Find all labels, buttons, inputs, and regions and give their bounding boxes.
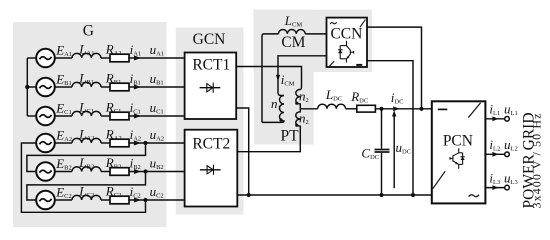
- wire inductor to resistor A2: [101, 142, 110, 144]
- inductor L_CM: [278, 30, 305, 34]
- wire L_DC to R_DC: [346, 108, 357, 110]
- PT secondary winding n2 top: [296, 89, 301, 108]
- inductor L_DC: [318, 104, 346, 109]
- wire resistor to rectifier C1: [129, 115, 185, 117]
- resistor RC1: [110, 112, 129, 120]
- wire delta link uB2 to C2: [27, 172, 146, 201]
- AC source EB2: [36, 162, 55, 181]
- wire inductor to resistor C2: [101, 199, 110, 201]
- wire RCT1 minus output: [236, 108, 249, 195]
- current arrow i_L1: [492, 116, 498, 121]
- wire inductor to resistor B1: [101, 86, 110, 88]
- terminal u_L1: [505, 117, 510, 122]
- panel GCN: [176, 28, 244, 215]
- capacitor C_DC: [375, 109, 390, 195]
- rectifier RCT1 box: [185, 53, 237, 120]
- wire L_CM to CCN: [305, 33, 326, 35]
- inductor LB2: [72, 167, 101, 172]
- PT secondary winding n2 bottom: [237, 109, 300, 152]
- wire PCN output L1: [485, 118, 504, 120]
- polarity dot n1: [279, 118, 282, 121]
- wire resistor to rectifier B2: [129, 171, 185, 173]
- node uC2 junction: [143, 198, 147, 202]
- current arrow iB2: [134, 169, 141, 174]
- PCN tilde mark: [469, 195, 479, 197]
- inductor LB1: [72, 82, 101, 87]
- wire bus to source C1: [27, 115, 36, 117]
- resistor RB2: [110, 168, 129, 176]
- svg-text:RCT1: RCT1: [192, 57, 230, 74]
- wire resistor to rectifier A2: [129, 142, 185, 144]
- inverter PCN box: [432, 101, 486, 203]
- CCN corner slash top-right: [360, 20, 366, 28]
- wye neutral bus: [26, 58, 28, 116]
- wire bus to source A1: [27, 57, 36, 59]
- current arrow iA1: [134, 56, 141, 61]
- resistor RC2: [110, 196, 129, 204]
- node uB2 junction: [143, 169, 147, 173]
- tilde over CCN: [330, 22, 337, 24]
- resistor RA1: [110, 54, 129, 62]
- resistor R_DC: [357, 105, 376, 112]
- wire resistor to rectifier A1: [129, 57, 185, 59]
- wire PT tap to L_DC: [300, 108, 317, 110]
- rectifier RCT2 box: [185, 130, 238, 207]
- AC source EC2: [36, 191, 55, 210]
- PT primary winding n1: [262, 96, 284, 123]
- wire L_CM branch to PT primary bottom: [262, 34, 278, 123]
- wire resistor to rectifier B1: [129, 86, 185, 88]
- current arrow i_L2: [492, 152, 498, 157]
- current arrow i_L3: [492, 185, 498, 190]
- terminal u_L2: [505, 152, 510, 157]
- svg-text:GCN: GCN: [193, 31, 226, 48]
- svg-text:RCT2: RCT2: [192, 135, 230, 152]
- wire source to inductor B2: [55, 171, 72, 173]
- neutral junction dot: [25, 85, 29, 89]
- resistor RB1: [110, 83, 129, 91]
- PCN corner slash bottom-left: [433, 171, 446, 189]
- wire DC minus bus: [237, 194, 431, 196]
- current arrow iC2: [134, 198, 141, 203]
- AC source EC1: [36, 107, 55, 126]
- wire CCN lower-right to DC minus bus: [367, 61, 413, 195]
- wire CCN upper-right to DC plus bus: [367, 27, 422, 109]
- junction dot CCN minus: [411, 193, 415, 197]
- svg-text:CCN: CCN: [330, 25, 362, 42]
- wire PCN output L3: [485, 187, 504, 189]
- wire PCN output L2: [485, 153, 504, 155]
- wire source to inductor A1: [55, 57, 72, 59]
- current arrow i_CM: [276, 75, 280, 81]
- svg-text:PT: PT: [280, 127, 299, 144]
- wire source to inductor C1: [55, 115, 72, 117]
- node uA2 junction: [143, 141, 147, 145]
- PCN corner slash top-right: [468, 103, 480, 118]
- polarity dot n2 top: [295, 102, 298, 105]
- svg-text:PCN: PCN: [443, 133, 473, 150]
- wire inductor to resistor A1: [101, 57, 110, 59]
- converter CCN box: [327, 18, 368, 67]
- inductor LC2: [72, 195, 101, 200]
- wire RCT1 plus output to PT secondary: [236, 67, 301, 90]
- junction dot R_DC/C_DC: [379, 107, 383, 111]
- diode symbol RCT1: [200, 83, 221, 93]
- current arrow iC1: [134, 114, 141, 119]
- resistor RA2: [110, 139, 129, 147]
- AC source EB1: [36, 78, 55, 97]
- panel CM/CCN: [253, 10, 371, 72]
- wire source to inductor C2: [55, 199, 72, 201]
- wire resistor to rectifier C2: [129, 199, 185, 201]
- wire delta outer uC2 to A2: [21, 143, 145, 212]
- diode symbol RCT2: [200, 165, 221, 175]
- current arrow iA2: [134, 141, 141, 146]
- inductor LA1: [72, 53, 101, 58]
- voltage arrow u_DC: [392, 110, 396, 188]
- IGBT symbol CCN: [338, 41, 354, 63]
- inductor LA2: [72, 138, 101, 143]
- wire bus to source B1: [27, 86, 36, 88]
- wire delta link uA2 to B2: [27, 143, 146, 172]
- polarity dot n2 bottom: [295, 124, 298, 127]
- IGBT symbol PCN: [450, 148, 465, 169]
- svg-text:G: G: [83, 22, 94, 39]
- svg-text:CM: CM: [281, 34, 305, 51]
- wire CCN lower-left to PT primary top: [278, 56, 327, 96]
- panel generator G: [13, 22, 167, 227]
- wire source to inductor B1: [55, 86, 72, 88]
- PCN minus mark: [438, 108, 448, 110]
- junction dot C_DC minus: [379, 193, 383, 197]
- panel PT: [254, 10, 314, 145]
- terminal u_L3: [505, 185, 510, 190]
- wire DC plus bus: [375, 108, 431, 110]
- wire inductor to resistor C1: [101, 115, 110, 117]
- CCN minus mark: [356, 64, 362, 66]
- inductor LC1: [72, 111, 101, 116]
- current arrow i_DC: [393, 106, 400, 111]
- CCN corner slash bottom-left: [328, 61, 334, 67]
- junction dot CCN plus: [419, 107, 423, 111]
- AC source EA2: [36, 134, 55, 153]
- wire source to inductor A2: [55, 142, 72, 144]
- wire inductor to resistor B2: [101, 171, 110, 173]
- junction dot RCT minus: [247, 193, 251, 197]
- AC source EA1: [36, 49, 55, 68]
- current arrow iB1: [134, 85, 141, 90]
- svg-text:3x400 V / 50 Hz: 3x400 V / 50 Hz: [530, 112, 544, 208]
